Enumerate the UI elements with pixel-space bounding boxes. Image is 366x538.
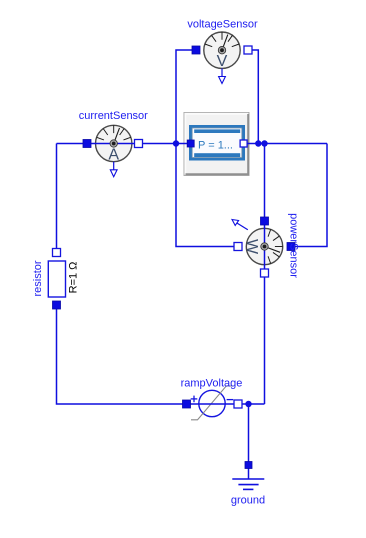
wire node J4 down to ground bbox=[248, 404, 250, 479]
wire display.n to right bus corner bbox=[244, 143, 327, 145]
svg-text:voltageSensor: voltageSensor bbox=[187, 18, 258, 30]
rampVoltage ramp signal polyline bbox=[191, 386, 234, 420]
ground G1 symbol bbox=[232, 479, 264, 489]
wire voltageSensor.n down to node J2 bbox=[248, 50, 258, 144]
svg-text:powerSensor: powerSensor bbox=[288, 213, 300, 278]
currentSensor needle bbox=[114, 128, 120, 144]
svg-text:currentSensor: currentSensor bbox=[79, 110, 148, 122]
svg-text:rampVoltage: rampVoltage bbox=[181, 377, 243, 389]
rampVoltage V1 source circle bbox=[199, 390, 225, 416]
powerSensor reference arrow bbox=[232, 220, 248, 230]
wire voltageSensor.p to node J1 bbox=[176, 50, 196, 144]
pin rampVoltage.p left (filled) bbox=[183, 400, 191, 408]
pin ground.p (filled) bbox=[245, 462, 252, 469]
svg-text:resistor: resistor bbox=[32, 260, 44, 296]
pin voltageSensor.n (open) bbox=[244, 46, 252, 54]
currentSensor hub bbox=[110, 140, 117, 147]
display block U1 (P = 1...) outer box bbox=[184, 113, 249, 176]
svg-text:R=1 Ω: R=1 Ω bbox=[68, 262, 80, 294]
powerSensor U4 gauge body (rotated 90) bbox=[243, 228, 283, 264]
pin powerSensor.pv left (open) bbox=[234, 243, 242, 251]
wire left column to resistor top bbox=[56, 144, 58, 249]
currentSensor U3 gauge body bbox=[96, 125, 132, 163]
wire resistor bottom to bottom bus through rampVoltage bbox=[57, 309, 265, 404]
svg-text:ground: ground bbox=[231, 495, 265, 507]
node J3 bbox=[261, 140, 267, 146]
pin resistor.p top (open) bbox=[53, 249, 61, 257]
pin currentSensor.n (open) bbox=[135, 140, 143, 148]
resistor R1 body bbox=[48, 261, 65, 297]
pin powerSensor.nv right (filled) bbox=[287, 243, 295, 251]
svg-text:W: W bbox=[243, 239, 260, 255]
pin voltageSensor.p (filled) bbox=[192, 46, 200, 54]
wire bus through currentSensor to display.p bbox=[57, 143, 191, 145]
voltageSensor bottom arrow bbox=[219, 68, 226, 83]
pin powerSensor.pc top (filled) bbox=[261, 217, 269, 225]
pin currentSensor.p (filled) bbox=[83, 140, 91, 148]
svg-text:P = 1...: P = 1... bbox=[198, 139, 233, 151]
pin display.nc (open) bbox=[240, 140, 247, 147]
svg-text:A: A bbox=[108, 147, 119, 164]
wire right loop to powerSensor right pin bbox=[291, 144, 327, 247]
svg-text:V: V bbox=[217, 53, 228, 70]
wire node J3 down through powerSensor to bottom elbow bbox=[264, 144, 266, 405]
pin resistor.n bottom (filled) bbox=[53, 301, 61, 309]
powerSensor hub bbox=[261, 243, 268, 250]
voltageSensor needle bbox=[222, 35, 228, 51]
voltageSensor hub bbox=[218, 47, 225, 54]
voltageSensor U2 gauge body bbox=[204, 32, 240, 70]
pin rampVoltage.n right (open) bbox=[234, 400, 242, 408]
node J1 bbox=[173, 140, 179, 146]
currentSensor bottom arrow bbox=[110, 162, 117, 177]
rampVoltage minus sign bbox=[227, 399, 234, 401]
pin powerSensor.nc bottom (open) bbox=[261, 269, 269, 277]
powerSensor needle bbox=[265, 247, 281, 253]
wire node J1 down to powerSensor left pin bbox=[176, 144, 238, 247]
node J4 bbox=[245, 401, 251, 407]
pin display.pc (filled) bbox=[187, 140, 194, 147]
node J2 bbox=[255, 140, 261, 146]
rampVoltage plus sign bbox=[191, 396, 198, 403]
